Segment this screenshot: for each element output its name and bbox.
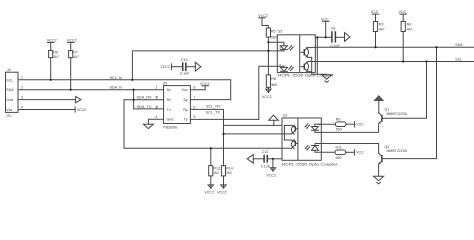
wire U5 Ry pin6 down [190,109,223,165]
U3 phototransistor T2 [282,139,298,149]
resistor R11 to VCC [335,146,364,160]
wire J4 pin4 to VCC2 tap [18,109,75,111]
SCL main line [315,61,474,63]
ground at U2 [322,75,332,79]
wire vertical SDA_RX down to opto2 T2 emitter [124,100,282,149]
svg-text:8: 8 [193,86,195,90]
svg-text:7: 7 [193,96,195,100]
resistor R7 with VCC2 [67,38,79,89]
LED2 of U3 [305,144,319,153]
svg-text:VCC2: VCC2 [266,173,276,177]
svg-text:SCL_RX: SCL_RX [206,105,221,109]
svg-text:VCC2: VCC2 [204,191,214,195]
svg-text:4k7: 4k7 [379,27,385,31]
wire SDA_TX to U5 Tx [134,108,164,110]
wire SCL branch vertical to top rail [132,51,284,80]
wire SDA branch vertical to Tx [133,90,135,109]
wire SDA_RX from corner to U5 Rx [124,99,164,101]
IC U5 P82B96 [155,81,195,129]
supply arrow right at pin3 [76,96,81,102]
svg-text:0.1uF: 0.1uF [180,72,190,76]
svg-text:4k7: 4k7 [53,55,59,59]
svg-text:4: 4 [21,105,23,109]
svg-text:3: 3 [279,46,281,50]
svg-text:C10: C10 [181,58,188,62]
svg-text:I2C: I2C [6,114,12,118]
resistor R6 with VCC2 [47,38,59,79]
LED1 of U3 [305,124,319,133]
svg-text:Ty: Ty [184,118,188,122]
svg-text:VCC2: VCC2 [258,14,268,18]
LED2 of U2 [279,63,294,72]
svg-text:Sx: Sx [167,88,171,92]
svg-text:P82B96: P82B96 [163,125,177,129]
svg-text:J4: J4 [7,68,11,72]
svg-text:Gnd: Gnd [167,118,174,122]
svg-text:MMBT2222A: MMBT2222A [387,149,408,153]
svg-text:MMBT2222A: MMBT2222A [387,112,408,116]
svg-text:R5: R5 [271,29,276,33]
U3 phototransistor T1 [282,125,298,135]
svg-text:560: 560 [271,83,277,87]
svg-text:560: 560 [336,128,342,132]
svg-text:SCL_In: SCL_In [110,76,123,80]
U2 phototransistor T1 [301,47,315,57]
svg-text:Rx: Rx [167,98,172,102]
svg-text:U2: U2 [278,29,283,33]
U2 phototransistor T2 [301,62,315,72]
svg-text:2k2: 2k2 [226,171,232,175]
svg-text:SCL: SCL [6,78,13,82]
svg-text:R14: R14 [226,166,233,170]
svg-text:Ry: Ry [183,108,188,112]
wire LED2 cathode to Q2 collector [315,144,379,154]
svg-text:C12: C12 [262,150,269,154]
connector J4 [6,68,19,118]
wire U5 Gnd pin to ground [148,119,163,124]
svg-text:C8: C8 [331,26,336,30]
SDA main line [315,46,474,48]
wire Ry line across to opto2 pin [224,124,283,126]
resistor R14 with VCC2 below [217,166,233,195]
svg-text:2k2: 2k2 [213,171,219,175]
svg-text:6: 6 [193,105,195,109]
svg-text:SDA: SDA [6,88,14,92]
capacitor C10 with VCC2 and supply arrow [160,58,201,75]
svg-text:2: 2 [279,63,281,67]
svg-text:VCC2: VCC2 [262,95,272,99]
svg-text:4: 4 [155,115,157,119]
svg-text:560: 560 [271,35,277,39]
wire U5 Vcc pin8 to VCC2 [190,86,205,90]
svg-text:VCC: VCC [356,151,364,155]
svg-text:2: 2 [155,96,157,100]
svg-text:1: 1 [21,76,23,80]
wire SDA In from J4 pin2 to U5 Sx [18,89,164,91]
svg-text:VCC2: VCC2 [77,108,87,112]
svg-text:R3: R3 [379,22,384,26]
svg-text:3: 3 [21,95,23,99]
svg-text:SDA_TX: SDA_TX [137,105,153,109]
svg-text:4k7: 4k7 [407,27,413,31]
svg-text:R13: R13 [213,166,220,170]
resistor R13 with VCC2 below [204,148,220,194]
optocoupler U3 HCPL-2530 box [282,118,321,160]
svg-text:SDA_RX: SDA_RX [137,96,153,100]
wire Ty vertical up to LED2 anode line [259,66,284,119]
svg-text:SCL_TX: SCL_TX [206,110,221,114]
svg-text:Tx: Tx [167,108,171,112]
svg-text:5: 5 [193,115,195,119]
svg-text:SCL: SCL [455,58,462,62]
wire J4 pin3 to supply arrow [18,99,76,101]
svg-text:SDA_In: SDA_In [110,86,123,90]
wire line to opto2 T1 emitter [224,133,283,135]
svg-text:560: 560 [336,156,342,160]
svg-text:U3: U3 [283,114,288,118]
svg-text:Sy: Sy [183,98,187,102]
resistor R3 with VCC [371,10,385,47]
capacitor C12 with arrow and VCC2 [247,150,282,178]
resistor R4 with VCC [399,10,413,61]
wire Q1 base to SCL [382,62,427,119]
resistor R5 with VCC2 above [258,14,277,75]
wire U5 Ty pin5 with jog to opto2 [190,118,258,120]
svg-text:0.1uF: 0.1uF [261,164,271,168]
VCC and C8 on top rail [315,17,350,47]
VCC arrow at opto2 top-left [269,115,279,120]
transistor Q1 MMBT2222A [378,108,407,124]
external vertical from top rail [316,37,318,74]
svg-text:R4: R4 [407,22,412,26]
LED1 of U2 [268,42,293,51]
svg-text:U5: U5 [163,81,168,85]
svg-text:VCC: VCC [356,123,364,127]
svg-text:2: 2 [21,86,23,90]
optocoupler U2 HCPL-2530 box [277,35,315,73]
transistor Q2 MMBT2222A [378,145,407,176]
resistor R9 to VCC [335,118,364,132]
svg-text:VCC2: VCC2 [217,191,227,195]
svg-text:VCC: VCC [399,10,407,14]
svg-text:Gnd: Gnd [6,98,13,102]
svg-text:R9: R9 [336,118,341,122]
svg-text:VCC: VCC [371,10,379,14]
wire SCL In from J4 pin1 to U5 Sy [18,80,231,100]
svg-text:3: 3 [155,105,157,109]
svg-text:VCC2: VCC2 [160,65,170,69]
svg-text:R11: R11 [336,146,342,150]
svg-text:SDA: SDA [455,43,463,47]
svg-text:VCC2: VCC2 [67,38,77,42]
wire LED1 cathode to Q1 emitter [315,125,379,132]
svg-text:1: 1 [155,86,157,90]
resistor R8 with VCC2 below [262,75,277,99]
svg-text:Vss: Vss [6,108,12,112]
VCC arrow above Q1 [375,96,383,100]
ground below Q2 [374,176,384,180]
wire LED2 anode to R11 [315,151,335,153]
svg-text:Vcc: Vcc [182,88,188,92]
U3 collector rail [283,126,285,140]
U2 emitter rail to ground [312,57,327,74]
ground at U5 [143,124,153,128]
svg-text:VCC2: VCC2 [47,38,57,42]
wire LED1 anode to R9 [318,123,335,125]
wire Q2 base to SDA [382,47,437,158]
VCC2 tap at pin4 [74,107,76,112]
svg-text:HCPL-2530 Opto Coupler: HCPL-2530 Opto Coupler [282,163,339,167]
svg-text:R8: R8 [271,77,276,81]
svg-text:4k7: 4k7 [73,55,79,59]
